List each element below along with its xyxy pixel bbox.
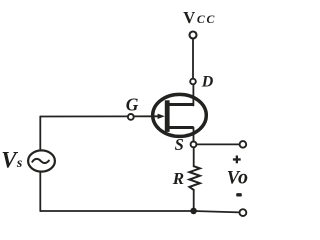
svg-text:D: D [201,74,214,91]
svg-text:R: R [172,169,184,188]
svg-text:o: o [238,166,248,188]
svg-text:V: V [1,148,18,173]
svg-text:G: G [126,95,139,115]
svg-text:s: s [16,156,23,171]
svg-text:S: S [175,135,184,154]
svg-text:CC: CC [197,12,216,26]
svg-text:V: V [183,8,195,27]
